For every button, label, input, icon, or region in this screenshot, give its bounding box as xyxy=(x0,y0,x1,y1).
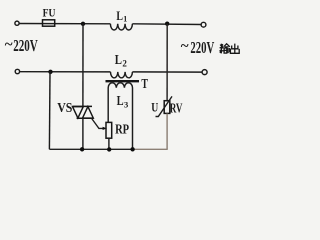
svg-text:U: U xyxy=(151,100,158,115)
wire top line right segment xyxy=(132,23,201,26)
wire RV branch upper xyxy=(166,24,168,101)
node junction top RV branch xyxy=(165,22,169,26)
wire left branch vertical xyxy=(48,72,51,149)
svg-text:RP: RP xyxy=(115,123,129,138)
terminal input top-left xyxy=(15,21,19,25)
wire bottom rail xyxy=(49,148,132,150)
wire top line left segment xyxy=(19,23,110,25)
svg-text:VS: VS xyxy=(57,101,72,116)
node junction rail VS xyxy=(80,147,84,151)
inductor L3 (transformer secondary) xyxy=(108,83,132,150)
inductor L1 xyxy=(110,24,132,30)
svg-text:FU: FU xyxy=(43,8,56,20)
terminal input bottom-left xyxy=(15,69,19,73)
node junction bottom-left branch xyxy=(48,70,52,74)
potentiometer RP xyxy=(106,122,112,138)
varistor RV xyxy=(164,101,170,114)
node junction top VS branch xyxy=(81,22,85,26)
svg-text:220V: 220V xyxy=(13,36,38,55)
node junction rail L3 xyxy=(130,147,134,151)
inductor L2 (transformer primary) xyxy=(111,72,133,78)
wire VS branch lower xyxy=(82,118,84,149)
svg-text:1: 1 xyxy=(123,15,127,24)
node junction rail RP xyxy=(107,147,111,151)
svg-text:2: 2 xyxy=(122,59,127,69)
wire gate of VS to RP wiper xyxy=(92,118,104,128)
terminal output top-right xyxy=(201,22,206,27)
svg-text:220V: 220V xyxy=(190,38,214,57)
triac VS xyxy=(72,106,93,118)
svg-text:3: 3 xyxy=(124,100,128,110)
wire middle line left segment xyxy=(20,71,111,73)
svg-text:L: L xyxy=(117,93,124,108)
svg-text:RV: RV xyxy=(170,101,183,116)
wire RV branch lower xyxy=(166,114,168,150)
svg-text:~: ~ xyxy=(181,38,189,54)
transformer T core xyxy=(106,80,140,82)
svg-text:L: L xyxy=(116,9,123,23)
fuse FU xyxy=(43,20,55,26)
svg-text:L: L xyxy=(115,53,122,68)
svg-text:~: ~ xyxy=(5,37,13,53)
wire middle line right segment xyxy=(132,71,202,73)
svg-text:T: T xyxy=(141,77,148,92)
terminal output bottom-right xyxy=(202,70,207,75)
wire RP to bottom rail xyxy=(108,138,110,149)
wire VS branch upper xyxy=(82,24,84,107)
label 输出 (output) drawn strokes xyxy=(219,44,239,54)
